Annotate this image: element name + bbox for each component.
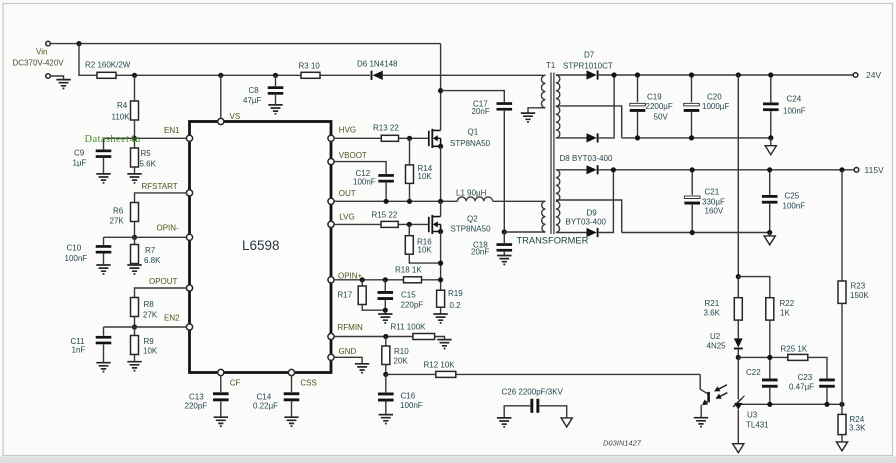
- wire Vin- to ground: [50, 76, 63, 79]
- wire 24V rail: [599, 74, 854, 76]
- node primary bottom / C17-C18 junction: [502, 229, 507, 234]
- resistor R2 160K/2W: [85, 60, 131, 78]
- svg-text:27K: 27K: [110, 217, 125, 226]
- node R22 bottom joins: [767, 355, 772, 360]
- svg-text:4N25: 4N25: [707, 341, 727, 350]
- svg-text:100nF: 100nF: [783, 202, 806, 211]
- node top rail / R2 branch: [76, 41, 81, 46]
- resistor R17: [338, 280, 386, 310]
- svg-text:100nF: 100nF: [65, 254, 88, 263]
- svg-text:U3: U3: [747, 410, 758, 419]
- svg-text:C13: C13: [189, 392, 204, 401]
- light arrows U2: [714, 385, 727, 399]
- node D9 cathode joins 115V rail: [611, 167, 616, 172]
- wire GND pin to ground: [334, 357, 362, 363]
- wire OPIN-: [104, 236, 187, 238]
- ground R11: [437, 340, 451, 349]
- svg-text:C25: C25: [785, 191, 800, 200]
- winding T1 secondary 24V (center-tapped): [556, 75, 622, 138]
- svg-text:C15: C15: [401, 291, 416, 300]
- wire Q2 drain: [440, 201, 442, 216]
- svg-text:220pF: 220pF: [185, 402, 208, 411]
- svg-text:CSS: CSS: [300, 378, 316, 387]
- resistor R15 22: [372, 210, 399, 227]
- capacitor C21 330uF 160V: [684, 170, 725, 233]
- ground 115V return (triangle): [764, 236, 775, 245]
- node C25 bottom / return end: [767, 230, 772, 235]
- svg-text:100nF: 100nF: [783, 106, 806, 115]
- wire R3 to D6: [320, 74, 370, 76]
- svg-text:R25 1K: R25 1K: [781, 344, 808, 353]
- svg-text:R9: R9: [144, 337, 155, 346]
- node C24 top: [768, 72, 773, 77]
- svg-text:100nF: 100nF: [400, 401, 423, 410]
- svg-text:T1: T1: [546, 61, 556, 70]
- svg-text:27K: 27K: [143, 311, 158, 320]
- svg-text:3.6K: 3.6K: [704, 309, 721, 318]
- svg-text:Q1: Q1: [468, 127, 479, 136]
- transistor Q1 STP8NA50 (n-mosfet): [429, 127, 491, 148]
- wire cathode node to R25: [738, 356, 788, 358]
- wire EN1: [104, 137, 187, 139]
- wire L1 to T1 primary top: [493, 200, 546, 202]
- capacitor C22: [746, 368, 778, 404]
- svg-text:150K: 150K: [850, 291, 869, 300]
- capacitor C12 100nF: [353, 169, 394, 201]
- capacitor C8 47uF: [243, 75, 283, 105]
- wire down to R2 level: [79, 44, 97, 76]
- pin OUT: [328, 189, 356, 205]
- svg-text:OPIN+: OPIN+: [338, 271, 363, 280]
- pin RFSTART: [142, 182, 193, 196]
- svg-text:R5: R5: [141, 149, 152, 158]
- svg-text:20nF: 20nF: [471, 248, 489, 257]
- wire R25 to C23: [808, 357, 827, 378]
- svg-text:3.3K: 3.3K: [849, 423, 866, 432]
- node C12 bottom: [384, 199, 389, 204]
- wire D6 to T1 aux winding: [383, 74, 546, 76]
- wire OUT line: [334, 200, 457, 202]
- svg-text:R22: R22: [780, 299, 795, 308]
- wire feed to R22: [738, 277, 770, 298]
- resistor R22 1K: [766, 298, 795, 379]
- node R17 bottom / C15 stub: [383, 308, 388, 313]
- node Q2 source: [438, 229, 443, 234]
- node regulation feed: [736, 274, 741, 279]
- svg-text:C23: C23: [798, 373, 813, 382]
- svg-text:D6 1N4148: D6 1N4148: [357, 59, 398, 68]
- svg-text:U2: U2: [710, 332, 721, 341]
- node C24 bottom / return end: [768, 135, 773, 140]
- node R23 feed: [839, 167, 844, 172]
- resistor R25 1K: [781, 344, 808, 360]
- svg-text:TRANSFORMER: TRANSFORMER: [517, 236, 589, 246]
- wire 115V return rail: [622, 232, 770, 234]
- capacitor C16 100nF: [378, 374, 423, 414]
- pin LVG: [328, 213, 355, 228]
- pin OPIN+: [328, 271, 363, 283]
- node C23 bottom: [824, 402, 829, 407]
- svg-text:C24: C24: [787, 95, 802, 104]
- wire RFSTART to R6: [135, 193, 187, 203]
- svg-text:OUT: OUT: [339, 189, 356, 198]
- svg-text:50V: 50V: [654, 112, 669, 121]
- svg-text:C19: C19: [647, 92, 662, 101]
- resistor R10 20K: [382, 337, 409, 375]
- pin RFMIN: [328, 323, 363, 339]
- ground C26 left (earth): [497, 418, 511, 427]
- terminal Vin+: [36, 41, 50, 56]
- svg-text:C11: C11: [71, 337, 86, 346]
- diode D7b (24V bottom half): [587, 75, 615, 143]
- resistor R11 100K: [391, 322, 435, 339]
- svg-text:EN2: EN2: [164, 314, 180, 323]
- svg-text:D03IN1427: D03IN1427: [603, 439, 642, 448]
- ground C15: [378, 314, 392, 323]
- svg-text:R11 100K: R11 100K: [391, 322, 427, 331]
- terminal 115V: [854, 165, 884, 175]
- svg-text:20nF: 20nF: [472, 107, 490, 116]
- svg-text:TL431: TL431: [746, 421, 769, 430]
- svg-text:0.2: 0.2: [450, 301, 462, 310]
- wire OPIN+ line: [334, 279, 403, 281]
- capacitor C13 220pF (CF pin): [185, 376, 229, 417]
- svg-text:1nF: 1nF: [72, 346, 86, 355]
- diode D9 BYT03-400: [566, 170, 614, 237]
- svg-text:D7: D7: [584, 51, 595, 60]
- node VS branch: [218, 73, 223, 78]
- node 24V feed to regulation network: [736, 72, 741, 77]
- svg-text:VBOOT: VBOOT: [339, 151, 367, 160]
- resistor R4 110K: [112, 75, 139, 138]
- pin VBOOT: [328, 151, 367, 165]
- resistor R12 10K: [424, 361, 456, 378]
- node R16 bottom join: [438, 261, 443, 266]
- pin OPOUT: [149, 277, 193, 291]
- resistor R18 1K: [395, 266, 422, 283]
- transformer T1 core: [546, 61, 556, 234]
- pin CSS (bottom edge): [288, 369, 316, 387]
- resistor R9 10K: [131, 327, 158, 361]
- svg-text:47µF: 47µF: [243, 96, 262, 105]
- resistor R6 27K: [110, 203, 139, 238]
- capacitor C20 1000uF: [684, 75, 730, 138]
- wire 115V rail: [599, 169, 854, 171]
- resistor R16 10K: [405, 224, 440, 263]
- terminal Vin-: [46, 74, 51, 79]
- svg-text:10K: 10K: [418, 172, 433, 181]
- svg-text:C16: C16: [401, 391, 416, 400]
- wire R15 to Q2 gate: [398, 223, 428, 225]
- svg-text:STP8NA50: STP8NA50: [450, 139, 491, 148]
- node C25 top: [767, 167, 772, 172]
- svg-text:1000µF: 1000µF: [702, 102, 729, 111]
- svg-text:L6598: L6598: [242, 238, 280, 253]
- diode D6 1N4148 (cathode left): [357, 59, 398, 80]
- node R16 top: [407, 222, 412, 227]
- svg-text:GND: GND: [339, 347, 357, 356]
- svg-text:110K: 110K: [112, 112, 131, 121]
- ground U3 (triangle): [733, 444, 744, 453]
- svg-text:R4: R4: [117, 101, 128, 110]
- node R14 bottom: [407, 199, 412, 204]
- pin OPIN-: [157, 223, 193, 240]
- wire Q2 source column: [440, 232, 442, 291]
- svg-text:220pF: 220pF: [401, 301, 424, 310]
- svg-text:R12 10K: R12 10K: [424, 361, 456, 370]
- svg-text:STPR1010CT: STPR1010CT: [563, 62, 613, 71]
- pin VS (top edge): [218, 112, 240, 125]
- node C8 branch: [273, 73, 278, 78]
- ground R24 (triangle): [836, 442, 847, 451]
- ground C26 right (triangle): [561, 418, 572, 427]
- node C20 bottom: [689, 135, 694, 140]
- ground opto emitter: [694, 418, 708, 427]
- node Q1 source: [438, 144, 443, 149]
- svg-text:C9: C9: [74, 149, 85, 158]
- pin EN1: [164, 126, 193, 141]
- wire R12 to optocoupler collector: [456, 373, 700, 375]
- node OPIN- junction: [132, 235, 137, 240]
- svg-text:5.6K: 5.6K: [140, 159, 157, 168]
- pin EN2: [164, 314, 193, 330]
- diode D7a STPR1010CT (24V top): [563, 51, 613, 80]
- capacitor C10 100nF: [65, 237, 112, 264]
- node C19 bottom: [635, 135, 640, 140]
- wire top rail Vin+ to Q1 drain column: [50, 43, 440, 45]
- svg-text:C8: C8: [249, 86, 260, 95]
- node divider junction: [839, 402, 844, 407]
- node C19 top: [635, 72, 640, 77]
- ground T1 aux: [521, 113, 535, 122]
- wire Q1 source to OUT node: [440, 146, 442, 201]
- ground C9: [96, 174, 110, 183]
- wire R2 to R3: [116, 74, 301, 76]
- svg-text:STP8NA50: STP8NA50: [451, 225, 492, 234]
- ground C10: [96, 265, 110, 274]
- ground C11: [96, 363, 110, 372]
- winding T1 primary: [542, 201, 546, 232]
- resistor R5 5.6K: [131, 138, 157, 173]
- shunt regulator U3 TL431: [733, 357, 769, 443]
- wire EN2: [104, 326, 187, 328]
- ground R19: [433, 314, 447, 323]
- winding T1 aux (primary side top): [528, 75, 546, 113]
- svg-text:R8: R8: [144, 300, 155, 309]
- svg-text:R7: R7: [145, 246, 156, 255]
- resistor R8 27K: [131, 298, 158, 328]
- ground C8: [268, 105, 282, 114]
- node R17 top: [360, 277, 365, 282]
- svg-text:EN1: EN1: [164, 126, 180, 135]
- resistor R3 10: [299, 61, 321, 78]
- capacitor C15 220pF: [378, 280, 424, 314]
- inductor L1 90uH: [456, 189, 493, 202]
- capacitor C23 0.47uF: [789, 373, 835, 404]
- wire R18 to source column: [422, 279, 441, 281]
- svg-text:C26 2200pF/3KV: C26 2200pF/3KV: [502, 388, 564, 397]
- ground C14: [284, 417, 298, 426]
- capacitor C26 2200pF/3KV: [502, 388, 567, 418]
- svg-text:R2 160K/2W: R2 160K/2W: [85, 60, 131, 69]
- capacitor C18 20nF: [471, 232, 512, 257]
- svg-text:HVG: HVG: [339, 126, 356, 135]
- wire 24V return rail: [622, 137, 771, 139]
- svg-text:R17: R17: [338, 291, 353, 300]
- resistor R13 22: [373, 124, 399, 142]
- wire HVG to gate: [334, 137, 381, 139]
- wire R10 node to R12: [386, 373, 436, 375]
- pin GND: [328, 347, 357, 361]
- wire C17 branch: [441, 91, 505, 103]
- capacitor C11 1nF: [71, 327, 112, 362]
- svg-text:Q2: Q2: [467, 215, 478, 224]
- svg-text:C20: C20: [707, 92, 722, 101]
- capacitor C17 20nF: [472, 99, 513, 232]
- diode D8 BYT03-400: [560, 154, 613, 175]
- svg-text:10K: 10K: [143, 347, 158, 356]
- ground 24V return (triangle): [765, 146, 776, 155]
- wire VS column: [220, 75, 222, 118]
- svg-text:VS: VS: [230, 112, 241, 121]
- pin CF (bottom edge): [218, 369, 241, 387]
- wire stub to 24V return ground: [770, 138, 772, 146]
- node R10/C16/R12 junction: [383, 372, 388, 377]
- capacitor C25 100nF: [762, 170, 805, 233]
- svg-text:CF: CF: [230, 378, 241, 387]
- svg-text:R15 22: R15 22: [372, 210, 398, 219]
- ground C18: [497, 256, 511, 265]
- svg-text:R19: R19: [448, 289, 463, 298]
- node half-bridge midpoint: [438, 199, 443, 204]
- svg-text:160V: 160V: [705, 207, 724, 216]
- svg-text:Datasheet4u: Datasheet4u: [85, 134, 142, 145]
- svg-text:2200µF: 2200µF: [646, 102, 673, 111]
- capacitor C19 2200uF 50V: [630, 75, 673, 138]
- terminal 24V: [853, 70, 881, 80]
- wire RFMIN line: [334, 336, 413, 338]
- node LED cathode / compensation: [736, 355, 741, 360]
- wire R11 to ground stub: [435, 337, 445, 340]
- svg-text:24V: 24V: [866, 70, 881, 80]
- svg-text:C10: C10: [67, 244, 82, 253]
- svg-text:10K: 10K: [418, 246, 433, 255]
- node D7b cathode joins 24V rail: [612, 72, 617, 77]
- svg-text:BYT03-400: BYT03-400: [566, 217, 607, 226]
- svg-text:115V: 115V: [865, 165, 885, 175]
- node C21 top: [690, 167, 695, 172]
- svg-text:LVG: LVG: [339, 213, 354, 222]
- ground C16: [379, 415, 393, 424]
- wire VBOOT to C12: [334, 162, 386, 174]
- node C15 top: [383, 277, 388, 282]
- ground C13: [214, 417, 228, 426]
- svg-text:330µF: 330µF: [702, 198, 725, 207]
- svg-text:Vin: Vin: [36, 47, 47, 56]
- wire junction to T1 primary bottom: [504, 231, 545, 233]
- node C22 bottom: [767, 402, 772, 407]
- op-amp-driver IC U1 L6598 body: [190, 122, 332, 373]
- svg-text:R13 22: R13 22: [373, 124, 399, 133]
- svg-text:1µF: 1µF: [73, 159, 87, 168]
- pin HVG: [328, 126, 356, 142]
- svg-text:RFSTART: RFSTART: [142, 182, 178, 191]
- svg-text:C22: C22: [746, 368, 761, 377]
- opto-LED U2 4N25 (anode top): [707, 332, 743, 357]
- ground (input return): [56, 80, 70, 89]
- svg-text:D9: D9: [587, 208, 598, 217]
- svg-text:0.22µF: 0.22µF: [253, 402, 278, 411]
- node C17 branch: [438, 88, 443, 93]
- svg-text:C21: C21: [705, 188, 720, 197]
- svg-text:R21: R21: [705, 299, 720, 308]
- svg-text:1K: 1K: [780, 309, 790, 318]
- resistor R21 3.6K: [704, 277, 743, 339]
- node R10 top: [383, 334, 388, 339]
- svg-text:20K: 20K: [394, 357, 409, 366]
- capacitor C9 1uF: [73, 138, 112, 173]
- winding T1 secondary 115V (center-tapped): [556, 170, 622, 233]
- wire compensation node line: [740, 403, 842, 405]
- wire Q1 drain column (top rail down): [440, 44, 442, 131]
- node R14 top: [407, 136, 412, 141]
- node R18/R19 junction: [438, 277, 443, 282]
- node R4 top: [132, 73, 137, 78]
- capacitor C24 100nF: [763, 75, 806, 138]
- ground R9: [127, 362, 141, 371]
- wire LVG to gate: [334, 223, 381, 225]
- resistor R24 3.3K: [838, 404, 866, 441]
- svg-text:C14: C14: [257, 392, 272, 401]
- node C20 top: [689, 72, 694, 77]
- svg-text:R6: R6: [113, 206, 124, 215]
- svg-text:R10: R10: [394, 347, 409, 356]
- opto-transistor U2 output: [700, 374, 708, 417]
- ground R5: [127, 174, 141, 183]
- wire stub to 115V return ground: [769, 233, 771, 236]
- resistor R7 6.8K: [131, 237, 162, 265]
- svg-text:D8 BYT03-400: D8 BYT03-400: [560, 154, 613, 163]
- svg-text:100nF: 100nF: [353, 177, 376, 186]
- wire 24V feed column: [737, 75, 739, 277]
- svg-text:DC370V-420V: DC370V-420V: [13, 58, 65, 67]
- svg-text:RFMIN: RFMIN: [338, 323, 364, 332]
- wire OPOUT to R8: [135, 288, 187, 298]
- node EN1 junction: [132, 136, 137, 141]
- resistor R19 0.2: [437, 289, 464, 314]
- node C21 bottom: [690, 230, 695, 235]
- capacitor C14 0.22uF (CSS pin): [253, 376, 299, 417]
- svg-text:6.8K: 6.8K: [144, 256, 161, 265]
- ground GND pin: [355, 364, 369, 373]
- svg-text:0.47µF: 0.47µF: [789, 383, 814, 392]
- svg-text:OPIN-: OPIN-: [157, 223, 180, 232]
- svg-text:L1 90µH: L1 90µH: [456, 189, 487, 198]
- transistor Q2 STP8NA50 (n-mosfet): [429, 215, 491, 235]
- node EN2 junction: [132, 324, 137, 329]
- resistor R14 10K: [406, 138, 433, 201]
- wire R13 to Q1 gate: [399, 137, 429, 139]
- svg-text:OPOUT: OPOUT: [149, 277, 178, 286]
- ground R7: [127, 265, 141, 274]
- svg-text:R3 10: R3 10: [299, 61, 321, 70]
- svg-text:R18 1K: R18 1K: [395, 266, 422, 275]
- resistor R23 150K: [838, 170, 869, 404]
- svg-text:R23: R23: [851, 282, 866, 291]
